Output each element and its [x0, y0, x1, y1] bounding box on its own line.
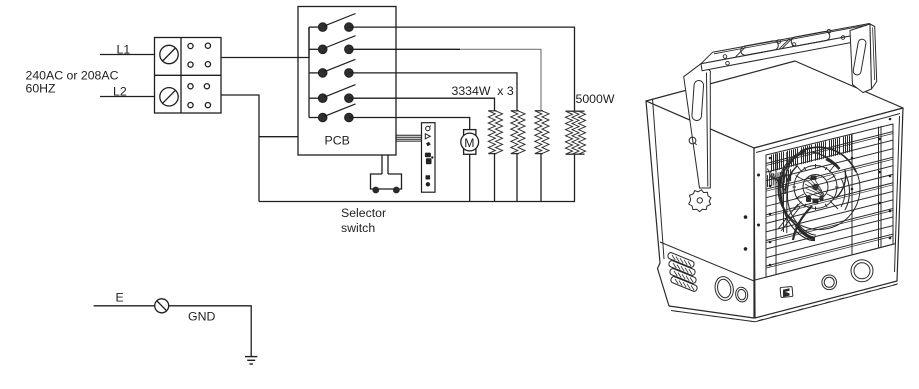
screw dots [744, 118, 892, 267]
hub bolt ticks [793, 164, 839, 210]
heater body left face [646, 101, 754, 318]
mounting bracket right arm [850, 24, 872, 93]
beam screws [723, 29, 845, 65]
front right edge inner line [895, 116, 900, 272]
fan blade lower-left [782, 167, 815, 241]
fan inner ring arc [800, 147, 856, 172]
connector strip J1 [422, 123, 436, 193]
mounting bracket beam [701, 24, 870, 64]
wire S2 to element E3 [349, 48, 460, 50]
switch S5 [309, 104, 356, 122]
right arm slot [853, 39, 867, 76]
wire motor to bus [469, 154, 471, 201]
vent slat 2 [669, 261, 695, 276]
beam front strip [701, 34, 862, 71]
base strip left [671, 284, 897, 322]
front band logo plate [780, 286, 793, 297]
left arm slot [692, 80, 704, 121]
bracket knob [689, 190, 711, 212]
ground wire to symbol [169, 306, 252, 356]
wire E1 to bus [494, 154, 496, 202]
svg-text:240AC or 208AC: 240AC or 208AC [26, 68, 119, 82]
front band knob small [822, 275, 837, 290]
front band seam [755, 244, 896, 281]
wire L2 to drop [221, 95, 259, 202]
wire L1 in [100, 54, 155, 56]
grille louvre slats [766, 132, 893, 267]
beam cross seams [736, 38, 793, 57]
front frame inner top line [756, 114, 900, 153]
left band knob small [735, 286, 749, 303]
grille vertical support mid [851, 133, 853, 255]
left back chamfer line [653, 99, 665, 260]
wire S4 to element E1 [349, 98, 495, 111]
heating coil hatch [768, 135, 852, 187]
base strip feet marks [674, 284, 898, 322]
switch S1 [309, 14, 356, 32]
louvre slat second lines [766, 134, 893, 269]
svg-text:switch: switch [341, 221, 375, 235]
svg-text:M: M [464, 136, 474, 150]
ground screw [155, 299, 169, 313]
heating element E1 3334W [488, 111, 502, 154]
svg-text:3334W x 3: 3334W x 3 [452, 84, 514, 98]
svg-text:Selector: Selector [341, 206, 386, 220]
fan mount strut [784, 152, 787, 233]
wire L1 to PCB [221, 57, 298, 59]
grille vertical support left [775, 153, 777, 275]
ground symbol [245, 357, 257, 364]
fan left double rim [778, 161, 793, 219]
wire E3 to bus [540, 154, 542, 202]
left arm screw [689, 137, 696, 144]
switch S2 [309, 36, 356, 54]
terminal block TB1 [155, 38, 222, 114]
fan blade right [845, 173, 850, 210]
selector switch stem [382, 155, 388, 174]
wire L2 in [100, 96, 155, 98]
switch S3 [309, 59, 356, 77]
heater body top face [646, 61, 903, 148]
svg-text:5000W: 5000W [576, 92, 615, 106]
beam slot 2 [790, 31, 830, 47]
coil hatch left patch [768, 168, 785, 190]
label selector switch [341, 206, 386, 235]
vent slat 4 [671, 277, 697, 292]
heater body front face [754, 108, 903, 318]
svg-text:E: E [116, 291, 124, 305]
fan blade top [812, 152, 838, 166]
hub hatch [805, 175, 824, 198]
grille inner frame [766, 124, 893, 277]
heating element E2 3334W [511, 111, 525, 154]
heating element 5000W [566, 111, 586, 154]
fan diagonal support [778, 204, 800, 231]
PCB U1 box [298, 7, 396, 156]
vent slat 3 [670, 269, 696, 284]
wire S3 to element E2 [349, 73, 517, 111]
wire input bus [298, 27, 309, 57]
svg-text:PCB: PCB [325, 133, 350, 147]
left arm fold line [707, 73, 708, 187]
ribbon PCB to connector [396, 135, 422, 141]
switch S4 [309, 85, 356, 103]
wire S1 to 5000W element [349, 27, 575, 111]
wire S5 to motor [349, 118, 470, 130]
label supply voltage [26, 68, 119, 95]
fan blade tip dark [796, 225, 815, 239]
vent slat 1 [668, 253, 694, 268]
hub extra detail [794, 163, 838, 210]
right arm side face [870, 24, 877, 89]
heater unit illustration [646, 24, 903, 322]
mounting bracket left arm [684, 64, 711, 188]
wire bottom bus [259, 201, 575, 203]
heating element E3 3334W [535, 111, 549, 154]
fan outer ring [778, 148, 860, 230]
selector switch body [371, 174, 402, 193]
svg-text:60HZ: 60HZ [26, 81, 57, 95]
fan swirl blades [780, 151, 846, 240]
grille vertical support right double [878, 127, 880, 248]
hub centre parts [806, 176, 824, 204]
fan hub [794, 166, 837, 209]
wire E2 to bus [516, 154, 518, 202]
beam slot 1 [740, 40, 779, 56]
ground wire E [94, 305, 155, 307]
svg-text:GND: GND [188, 310, 215, 324]
wire L2 branch to PCB [259, 136, 298, 138]
left band knob large [713, 275, 736, 302]
wire 5000W to bus [574, 154, 576, 201]
left face band seam [660, 242, 754, 281]
front band knob large [851, 260, 873, 282]
motor M [461, 130, 479, 155]
